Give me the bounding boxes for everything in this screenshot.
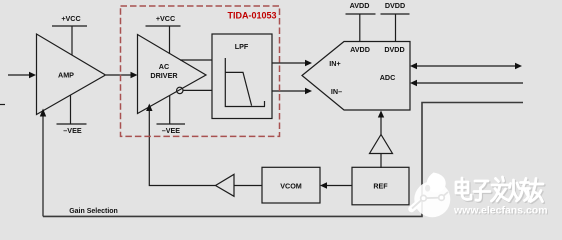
svg-text:AVDD: AVDD [350,45,370,54]
svg-text:+VCC: +VCC [156,14,175,23]
watermark flame notch [425,185,430,192]
block REF [352,167,409,205]
svg-text:AC: AC [159,62,169,71]
buffer (REF to ADC) [370,135,393,154]
svg-text:+VCC: +VCC [61,14,80,23]
svg-text:AVDD: AVDD [350,1,370,10]
glyph you [529,179,543,202]
wire AC driver lower output to LPF [183,89,212,91]
svg-text:–VEE: –VEE [63,126,82,135]
svg-text:VCOM: VCOM [280,182,302,191]
svg-text:www.elecfans.com: www.elecfans.com [453,205,548,217]
power AVDD [346,13,376,15]
svg-text:DVDD: DVDD [385,1,405,10]
arrowhead gain into AC driver [146,104,152,112]
svg-text:AMP: AMP [58,71,74,80]
arrowhead into AC driver [131,72,138,78]
svg-text:TIDA-01053: TIDA-01053 [227,11,276,21]
glyph fa [492,177,510,201]
block VCOM [262,167,320,203]
wire VCOM bias to AC driver [149,110,215,186]
buffer (VCOM to AC driver) [216,174,235,196]
arrowhead gain into AMP [40,109,46,117]
svg-text:Gain Selection: Gain Selection [69,208,118,215]
svg-text:REF: REF [373,182,388,191]
power -VEE (AC driver) [169,96,171,125]
power -VEE (AMP) [70,95,72,124]
arrowhead into AMP [29,72,36,78]
wire gain selection to AMP [42,116,44,217]
arrowhead line1 right [515,63,522,69]
arrowhead into ADC IN+ [305,60,312,66]
watermark pin casing [412,204,419,210]
filter block LPF [212,34,272,119]
svg-text:–VEE: –VEE [162,126,181,135]
svg-text:DRIVER: DRIVER [150,71,178,80]
op-amp AC DRIVER [138,35,207,114]
arrowhead line2 left [410,80,417,86]
svg-text:IN–: IN– [331,87,342,96]
svg-text:ADC: ADC [380,73,396,82]
wire data line 3 / gain selection return [43,103,523,217]
ADC block [302,42,410,111]
arrowhead into ADC IN- [305,88,312,94]
svg-text:DVDD: DVDD [384,45,404,54]
filter response glyph [225,58,265,107]
wire LPF to ADC IN- [272,90,305,92]
dashed box TIDA-01053 [121,6,280,136]
svg-text:IN+: IN+ [329,59,340,68]
watermark flame [427,173,446,193]
left edge stub [0,104,5,106]
wire AC driver upper output to LPF [180,59,212,61]
watermark pin line [412,192,448,209]
glyph dian [456,178,471,200]
amplifier AMP [37,34,106,115]
svg-text:LPF: LPF [235,42,249,51]
wire AMP to AC driver [106,74,135,76]
power +VCC (AC driver) [146,25,181,27]
watermark logo disc [412,173,451,218]
inverting output circle [177,87,183,93]
power DVDD [381,13,410,15]
wire REF to VCOM [323,185,352,187]
arrowhead line1 left [410,63,417,69]
glyph shao [509,179,530,202]
arrowhead buffer to ADC [378,111,384,118]
glyph zi [474,181,490,200]
wire data line 1 (bidirectional) [413,65,519,67]
watermark pin dots [421,195,427,201]
wire input to AMP [8,74,33,76]
arrowhead REF to VCOM [320,182,327,188]
wire LPF to ADC IN+ [272,62,310,64]
watermark chinese text (hand-drawn glyphs) [457,178,544,203]
power +VCC (AMP) [52,25,87,27]
wire data line 2 [413,82,523,84]
